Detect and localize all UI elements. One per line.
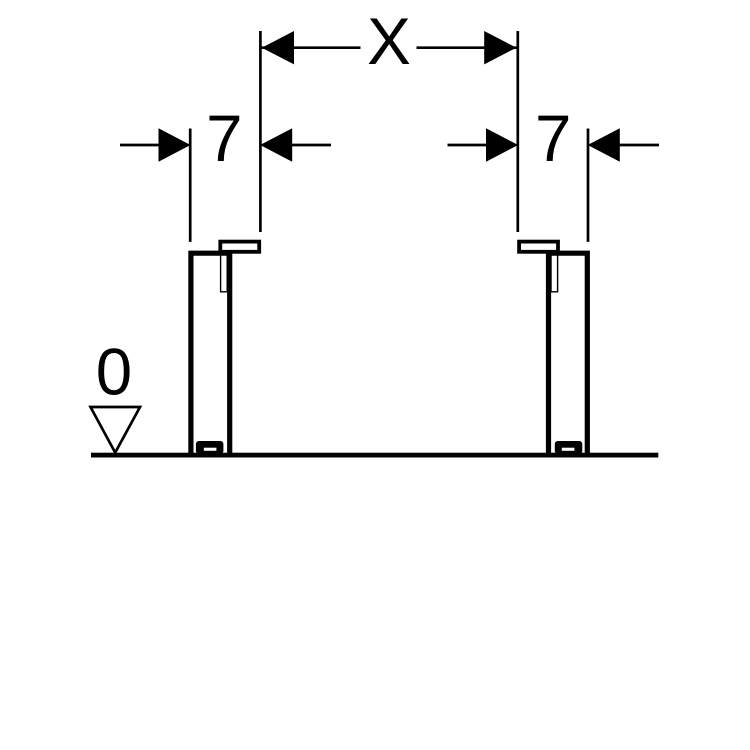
- extension line left of dimension X: [259, 31, 262, 232]
- svg-text:0: 0: [96, 336, 132, 409]
- leader line right of left dimension 7: [290, 144, 331, 147]
- dimension line X right segment: [417, 46, 517, 49]
- leader line right of right dimension 7: [618, 144, 659, 147]
- arrowhead left of dimension X: [262, 31, 294, 64]
- left rail top tab: [220, 242, 259, 252]
- right rail slider plate: [551, 252, 558, 292]
- extension line right of right dimension 7: [587, 129, 590, 242]
- svg-text:7: 7: [535, 102, 571, 175]
- arrowhead pointing left at right dimension 7: [588, 128, 620, 161]
- arrowhead right of dimension X: [484, 31, 516, 64]
- right rail foot: [555, 441, 583, 454]
- leader line left of left dimension 7: [120, 144, 160, 147]
- left rail foot: [196, 441, 224, 454]
- leader line left of right dimension 7: [448, 144, 489, 147]
- extension line left of left dimension 7: [189, 129, 192, 242]
- extension line right of dimension X: [516, 31, 519, 232]
- left rail foot slot: [204, 448, 217, 451]
- datum level triangle: [91, 407, 141, 453]
- arrowhead pointing left at left dimension 7: [260, 128, 292, 161]
- right rail top tab: [519, 242, 558, 252]
- left rail body: [191, 253, 230, 456]
- arrowhead pointing right at left dimension 7: [159, 128, 191, 161]
- floor line: [91, 453, 658, 458]
- svg-text:X: X: [367, 5, 411, 78]
- right rail foot slot: [562, 448, 575, 451]
- svg-text:7: 7: [206, 102, 242, 175]
- left rail slider plate: [221, 252, 228, 292]
- arrowhead pointing right at right dimension 7: [486, 128, 518, 161]
- dimension line X left segment: [262, 46, 361, 49]
- right rail body: [549, 253, 588, 456]
